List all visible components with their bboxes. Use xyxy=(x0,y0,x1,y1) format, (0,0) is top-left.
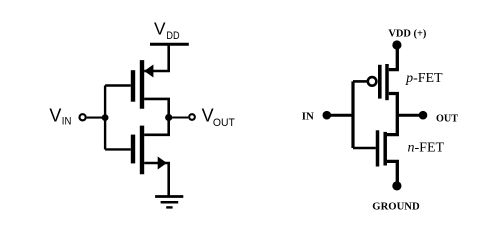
svg-text:V: V xyxy=(154,19,166,39)
svg-text:OUT: OUT xyxy=(436,113,459,125)
svg-text:V: V xyxy=(49,105,61,125)
svg-text:p-FET: p-FET xyxy=(405,70,443,85)
svg-text:GROUND: GROUND xyxy=(372,201,419,213)
svg-text:n-FET: n-FET xyxy=(408,140,445,155)
svg-text:VDD (+): VDD (+) xyxy=(388,27,426,39)
svg-text:V: V xyxy=(202,106,214,126)
svg-text:DD: DD xyxy=(166,30,179,42)
svg-text:IN: IN xyxy=(62,116,72,128)
svg-text:OUT: OUT xyxy=(213,117,235,129)
svg-text:IN: IN xyxy=(302,111,314,123)
